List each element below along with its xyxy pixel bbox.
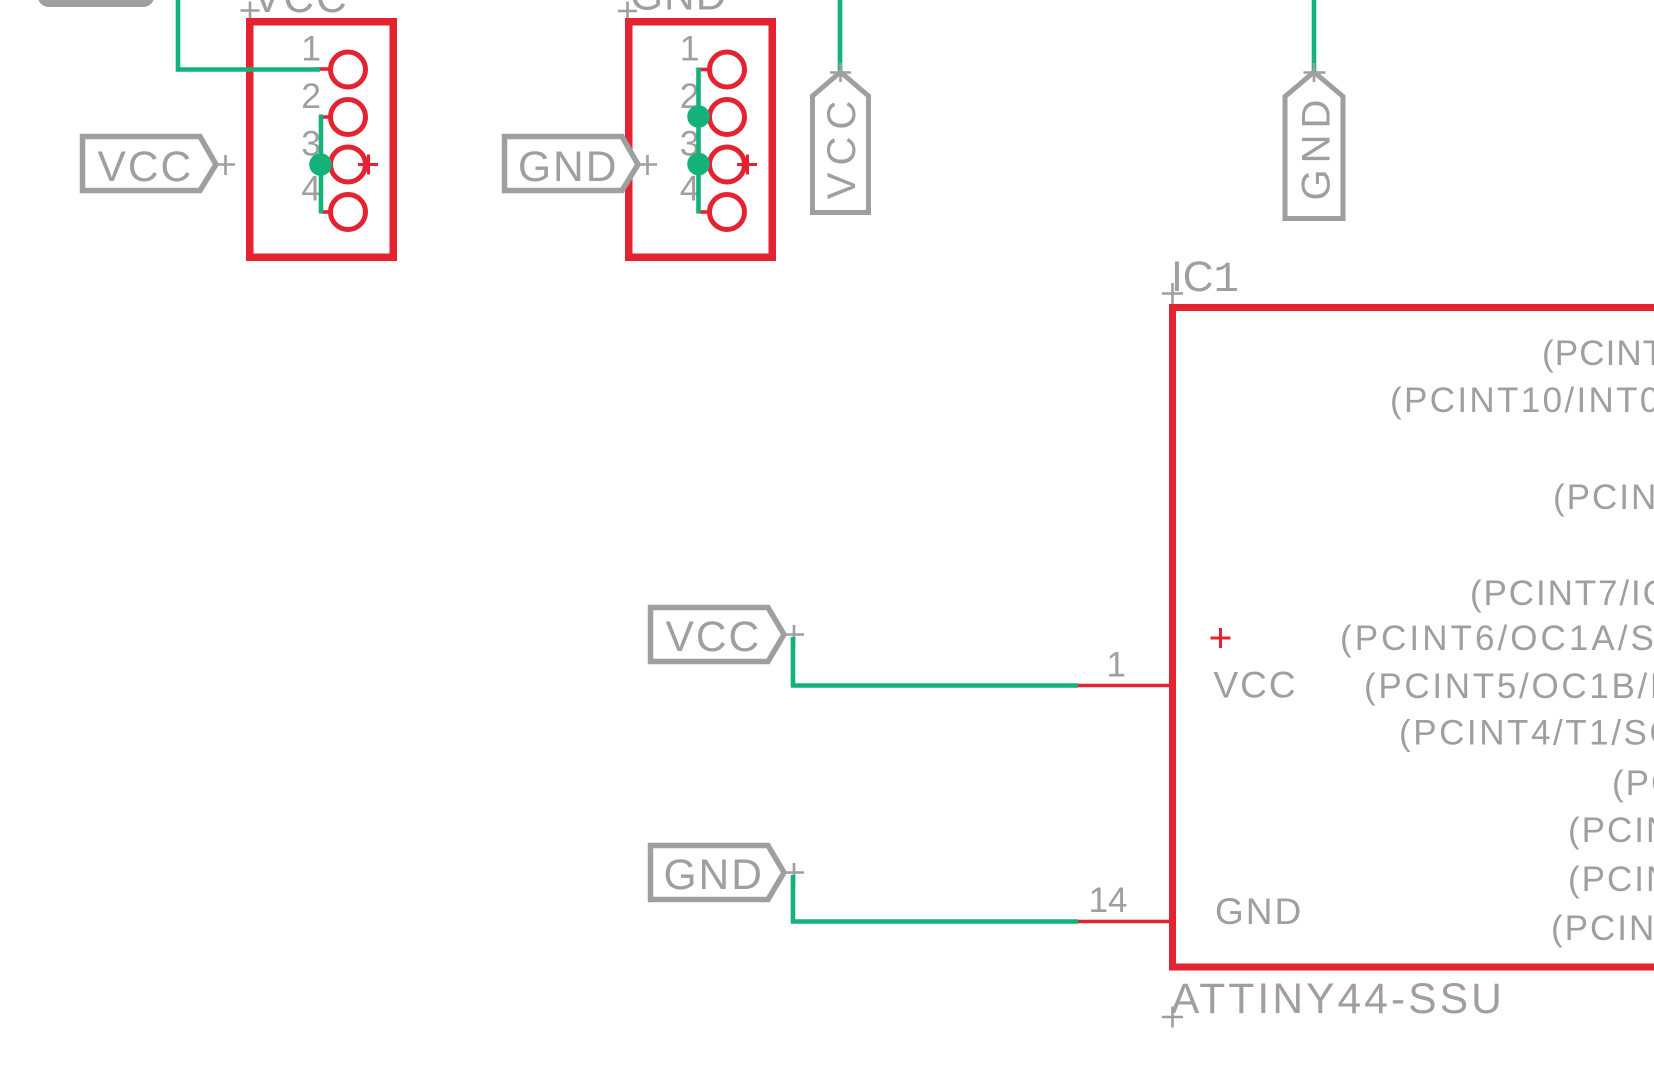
pin 3 endpoint cross J2 [737, 155, 757, 175]
svg-text:(PCINT0/ADC0/AREF)PA0: (PCINT0/ADC0/AREF)PA0 [1551, 909, 1654, 948]
J2 pin circle 3 [710, 147, 745, 182]
IC1 ATTINY44-SSU box [1173, 308, 1654, 968]
junction J2 pin3 [687, 153, 710, 176]
connector J1 box [250, 22, 394, 258]
svg-text:2: 2 [301, 76, 321, 116]
svg-text:VCC: VCC [666, 614, 762, 661]
J2 pin circle 4 [710, 195, 745, 230]
svg-text:VCC: VCC [820, 94, 864, 199]
cross at VCC supply tip [830, 63, 851, 82]
wire to VCC supply [838, 0, 843, 71]
svg-text:(PCINT10/INT0/OC0A/CKOUT)PB2: (PCINT10/INT0/OC0A/CKOUT)PB2 [1390, 381, 1654, 420]
wire VCC net to J1 pin 1 [178, 0, 320, 70]
svg-text:1: 1 [1107, 646, 1126, 685]
cross at GND-IC flag tip [784, 863, 804, 883]
svg-text:GND: GND [1215, 891, 1303, 932]
cross at VCC flag tip [216, 155, 235, 175]
IC1 origin cross bottom [1162, 1007, 1183, 1028]
flag VCC label left [83, 137, 217, 191]
svg-text:(PCINT6/OC1A/SDA/MOSI/DI/ADC6): (PCINT6/OC1A/SDA/MOSI/DI/ADC6)PA6 [1340, 619, 1654, 658]
flag GND to IC1 [651, 846, 785, 900]
IC1 plus mark near VCC pin [1211, 628, 1231, 648]
wire J1 vertical net [319, 115, 324, 214]
J1 pin circle 2 [331, 100, 366, 135]
cross at GND supply tip [1304, 63, 1326, 82]
J1 pin circle 1 [331, 52, 366, 87]
svg-text:VCC: VCC [98, 144, 194, 191]
svg-text:(PCINT1/ADC1/AIN0)PA1: (PCINT1/ADC1/AIN0)PA1 [1568, 860, 1654, 899]
svg-text:ATTINY44-SSU: ATTINY44-SSU [1171, 976, 1505, 1023]
svg-text:GND: GND [518, 144, 618, 191]
wire VCC to IC pin1 [793, 637, 1078, 686]
svg-text:(PCINT7/ICP/OC0B/ADC7)PA7: (PCINT7/ICP/OC0B/ADC7)PA7 [1470, 574, 1654, 613]
svg-text:(PCINT11/RESET)PB3: (PCINT11/RESET)PB3 [1553, 478, 1654, 517]
supply flag GND [1285, 72, 1343, 219]
pin stub J2 pin4 [699, 210, 710, 214]
svg-text:1: 1 [680, 29, 700, 69]
J1 pin circle 3 [331, 147, 366, 182]
pin stub J2 pin1 [699, 68, 710, 72]
pin stub J1 pin2 [321, 115, 331, 119]
svg-text:IC1: IC1 [1171, 254, 1239, 304]
svg-text:GND: GND [630, 0, 727, 20]
supply flag VCC [813, 72, 869, 213]
flag VCC to IC1 [651, 608, 785, 662]
svg-text:(PCINT4/T1/SCL/USCK/ADC4)PA4: (PCINT4/T1/SCL/USCK/ADC4)PA4 [1399, 714, 1654, 753]
svg-text:VCC: VCC [1214, 665, 1298, 706]
partial supply flag top-left [42, 0, 151, 4]
pin stub J1 pin1 [316, 67, 329, 71]
junction J1 pin3 [309, 153, 332, 176]
wire GND to IC pin14 [793, 875, 1078, 922]
wire to GND supply [1312, 0, 1317, 71]
svg-text:GND: GND [664, 852, 764, 899]
IC1 pin 14 stub [1078, 920, 1170, 924]
origin cross VCC name above J1 [241, 2, 260, 21]
junction J2 pin2 [687, 105, 710, 128]
wire J2 vertical net [696, 68, 701, 214]
svg-text:14: 14 [1089, 881, 1128, 920]
IC1 origin cross top [1162, 283, 1183, 304]
flag GND label left [505, 137, 639, 191]
cross at VCC-IC flag tip [784, 625, 804, 645]
svg-text:(PCINT9/XTAL2)PB1: (PCINT9/XTAL2)PB1 [1542, 334, 1654, 373]
svg-text:(PCINT5/OC1B/MISO/DO/ADC5)PA5: (PCINT5/OC1B/MISO/DO/ADC5)PA5 [1364, 667, 1654, 706]
J2 pin circle 2 [710, 100, 745, 135]
J1 pin circle 4 [331, 195, 366, 230]
svg-text:(PCINT2/ADC2/AIN1)PA2: (PCINT2/ADC2/AIN1)PA2 [1568, 811, 1654, 850]
cross at GND flag tip [638, 155, 657, 175]
svg-text:(PCINT3/ADC3/T0)PA3: (PCINT3/ADC3/T0)PA3 [1612, 764, 1654, 803]
IC1 pin 1 stub [1078, 684, 1170, 688]
svg-text:GND: GND [1295, 94, 1339, 201]
pin 3 endpoint cross J1 [358, 155, 378, 175]
origin cross GND name above J2 [618, 2, 637, 21]
J2 pin circle 1 [710, 52, 745, 87]
connector J2 box [629, 22, 773, 258]
pin stub J1 pin4 [321, 210, 331, 214]
svg-text:1: 1 [301, 29, 321, 69]
